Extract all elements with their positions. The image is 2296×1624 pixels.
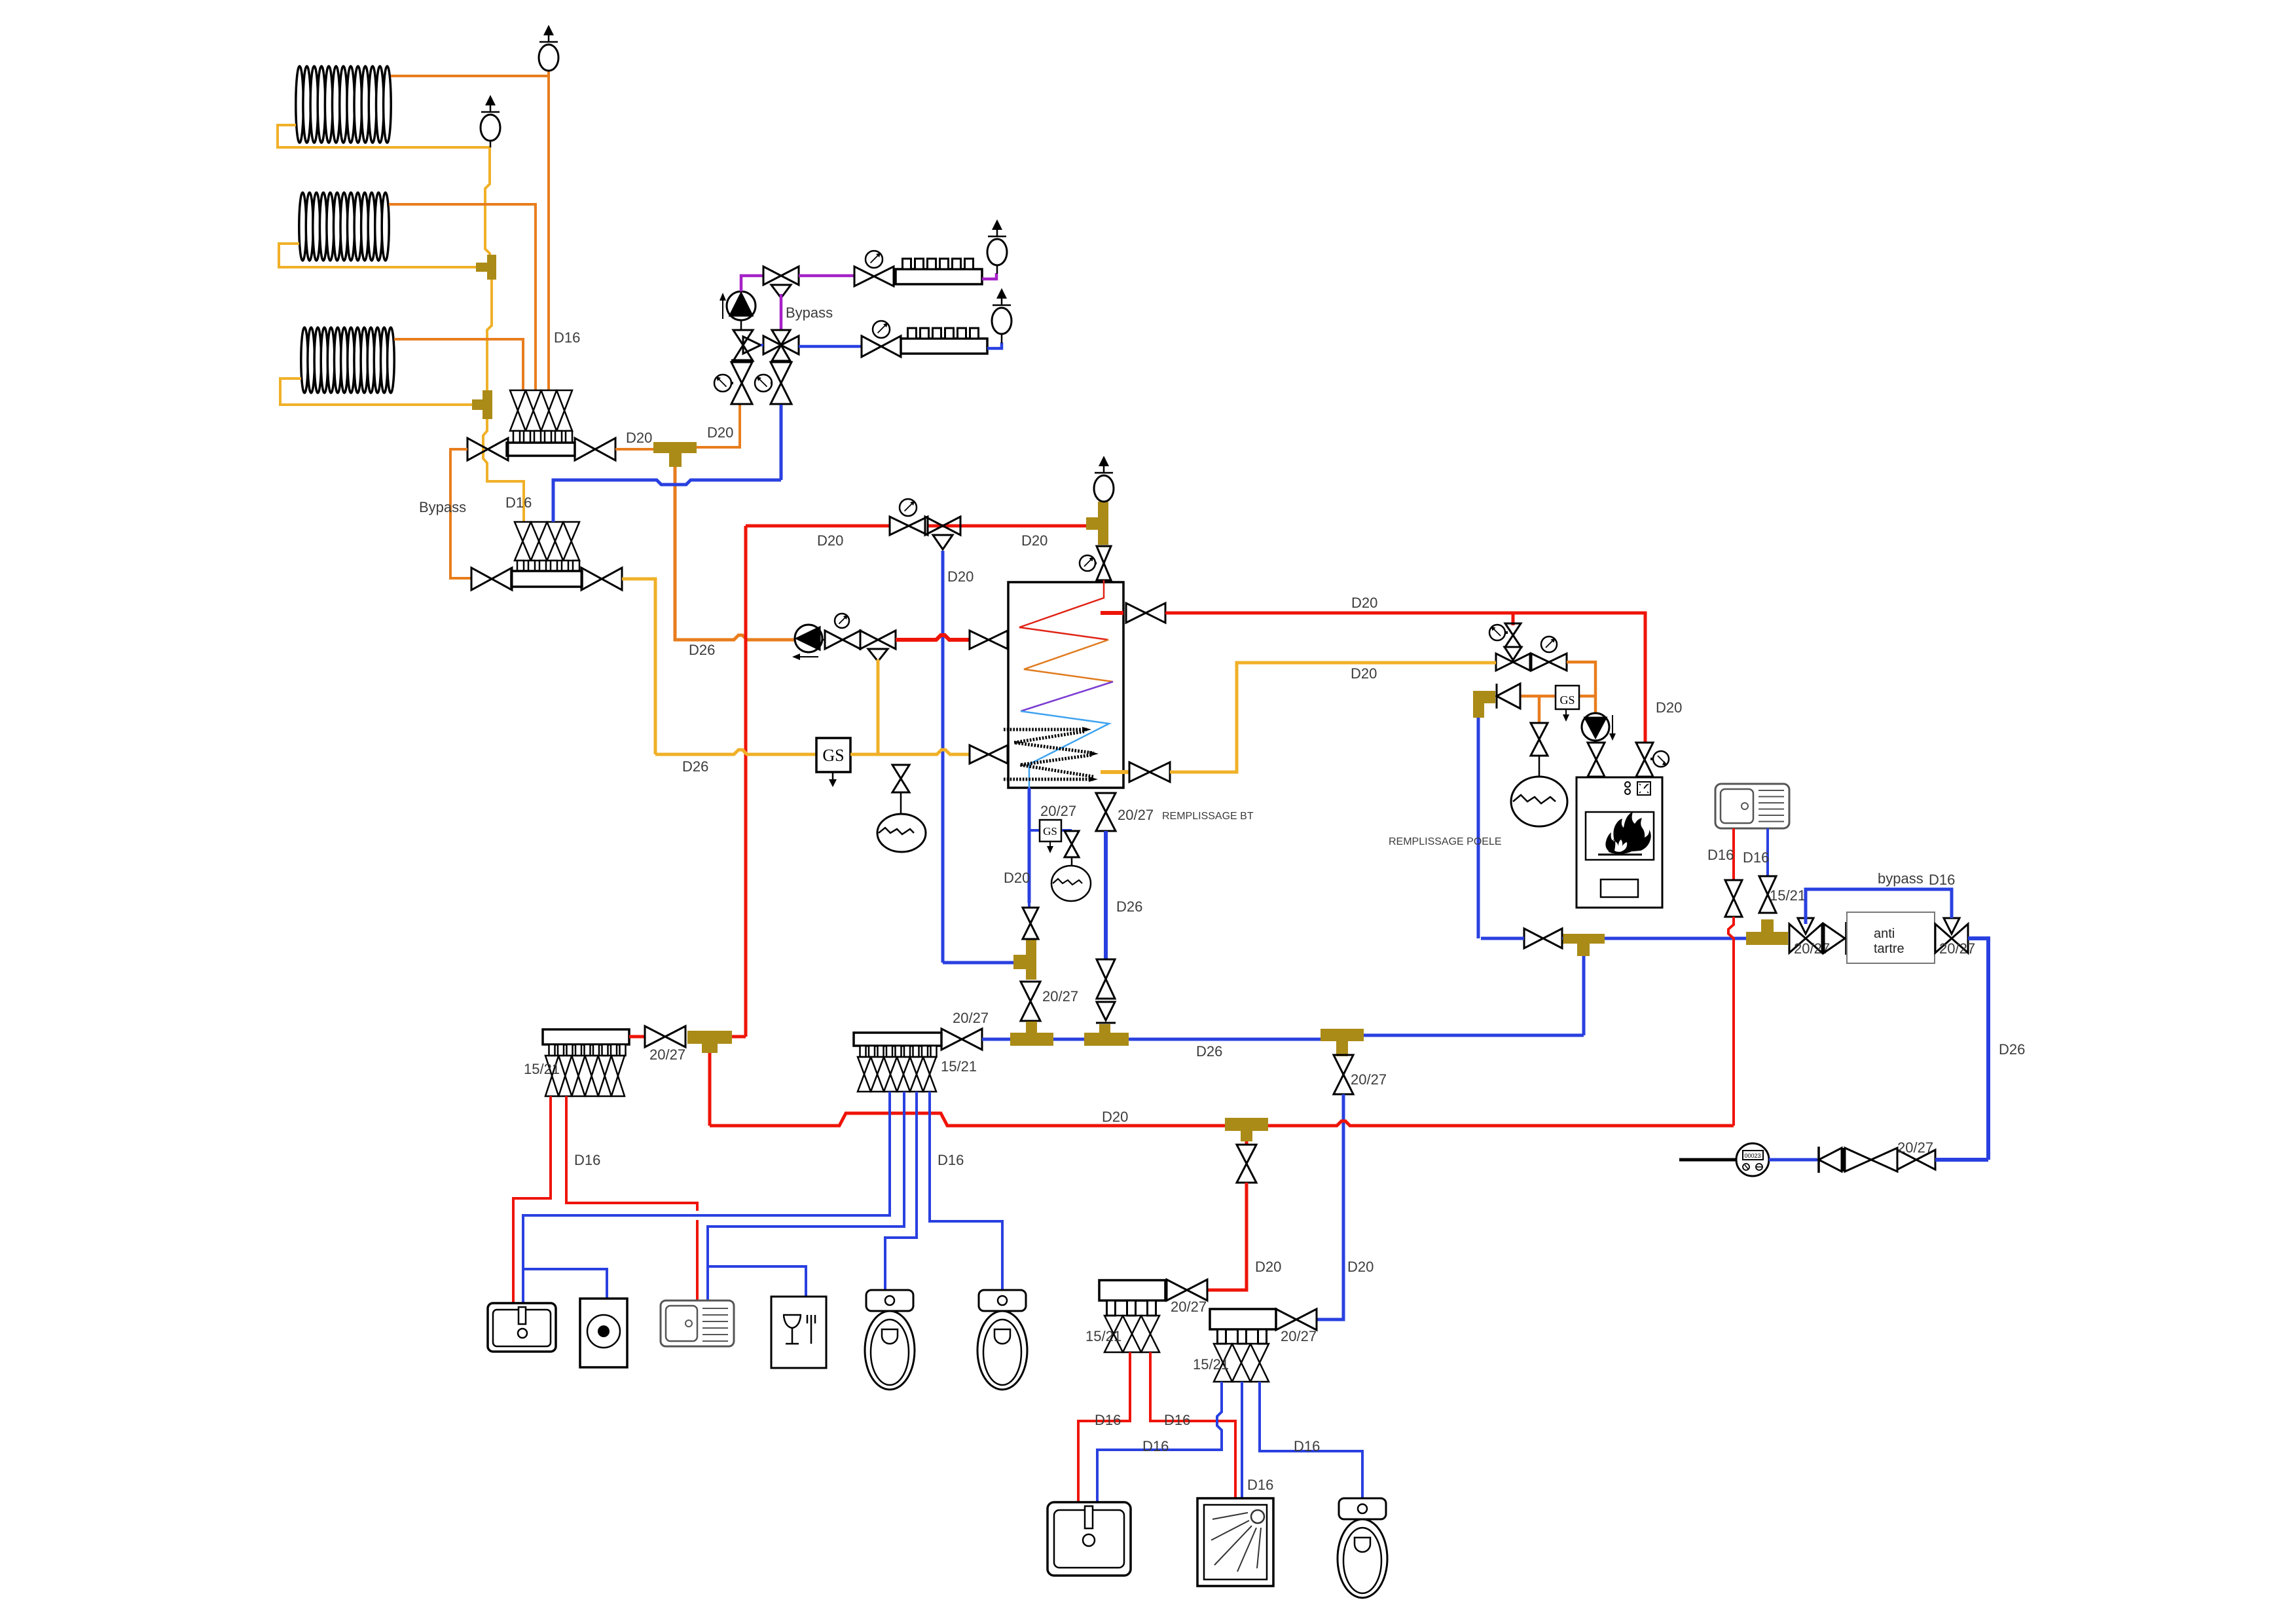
tank hatched coil top line xyxy=(1004,728,1087,731)
valve U2 left xyxy=(471,568,492,590)
GS box 2 xyxy=(1029,829,1072,832)
unit U1 bar xyxy=(507,443,575,456)
svg-text:D20: D20 xyxy=(1004,870,1030,886)
svg-text:20/27: 20/27 xyxy=(1351,1071,1387,1088)
wire blue bypass anti-tartre xyxy=(1806,889,1952,924)
pump P3 xyxy=(1582,713,1609,741)
wire red D20 stove main xyxy=(1165,613,1645,743)
toilet WC3 xyxy=(1339,1498,1386,1519)
tank hatched coil bottom line xyxy=(1004,778,1093,781)
svg-text:D26: D26 xyxy=(1196,1043,1222,1060)
svg-text:tartre: tartre xyxy=(1874,942,1904,956)
4-way valve V2 xyxy=(772,330,790,345)
wire yellow U2 right down xyxy=(622,579,655,754)
valve 20/27 stove fill xyxy=(1524,929,1543,948)
valve 20/27 after meter xyxy=(1897,1150,1916,1170)
wire yellow return radiator R2 xyxy=(279,244,477,267)
wire blue D20 to gold tee xyxy=(943,961,1013,965)
brass tee TA xyxy=(1010,1033,1053,1046)
wire pump stem xyxy=(740,320,742,330)
brass elbow stove fill xyxy=(1473,691,1495,703)
air vent on R1 riser xyxy=(543,25,554,35)
brass tee vertical TJ1 xyxy=(1026,938,1036,980)
floor manifold M1 bar xyxy=(896,269,982,284)
valve vertical on red stub xyxy=(1505,623,1521,635)
wire red MH1 to valve xyxy=(629,1035,645,1039)
valve M1 inlet with gauge xyxy=(854,267,874,286)
valve REMPLISSAGE BT xyxy=(1096,793,1116,812)
wire orange stove loop xyxy=(1567,662,1595,713)
expansion vessel E1 xyxy=(877,814,926,852)
wire blue TD right xyxy=(1605,937,1746,940)
wire purple pump to valve xyxy=(741,276,763,291)
GS3 drain arrow xyxy=(1565,709,1567,716)
svg-text:D16: D16 xyxy=(1247,1477,1273,1493)
wire yellow below T1 xyxy=(487,280,492,390)
MH1 stubs xyxy=(549,1044,555,1056)
kitchen sink 1 xyxy=(1715,784,1789,828)
wire blue to lavabo2 xyxy=(1097,1382,1222,1502)
svg-text:GS: GS xyxy=(1043,825,1057,838)
wire blue TB to TC D26 xyxy=(1129,1038,1321,1041)
wire red D20 vertical main xyxy=(744,526,748,1037)
valve M2 inlet with gauge xyxy=(862,336,881,357)
wire blue tank drain to TJ1 xyxy=(1028,903,1030,908)
wire red pump row to tank xyxy=(896,635,969,640)
wire black mains xyxy=(1679,1158,1737,1162)
brass tee sink1 xyxy=(1746,932,1788,945)
brass tee TB xyxy=(1084,1033,1129,1046)
valve below P3 xyxy=(1595,741,1597,743)
valve big after meter xyxy=(1845,1148,1871,1172)
valve V3 left of V2 xyxy=(733,330,753,345)
brass tee TH2 xyxy=(1225,1118,1268,1131)
wire red stub stove valve xyxy=(1512,613,1515,625)
DHW manifold MH2 bar xyxy=(854,1033,941,1046)
valve vessel E3 xyxy=(1531,723,1548,739)
lavabo 2 xyxy=(1048,1502,1131,1576)
svg-text:20/27: 20/27 xyxy=(1042,988,1078,1005)
svg-text:00023: 00023 xyxy=(1744,1153,1760,1159)
valve above TJ1 xyxy=(1023,908,1038,923)
svg-text:20/27: 20/27 xyxy=(953,1010,989,1026)
wire red to shower xyxy=(1150,1352,1235,1498)
wire blue drop3 WC1 xyxy=(885,1092,917,1290)
svg-text:D20: D20 xyxy=(1351,595,1377,611)
3-way valve red top xyxy=(925,517,943,535)
wire blue REMPLISSAGE POELE xyxy=(1477,718,1480,938)
wire yellow D26 main xyxy=(655,750,816,754)
wire yellow return radiator R1 xyxy=(278,125,490,147)
wire blue to shower xyxy=(1241,1382,1243,1498)
MH3 stubs xyxy=(1107,1301,1116,1316)
brass tee tank top xyxy=(1098,502,1108,545)
stove indicator dots xyxy=(1625,782,1630,787)
wire red TH2 down xyxy=(1245,1141,1248,1144)
radiator R3 coil xyxy=(301,327,308,393)
MH2 valve row 15/21 xyxy=(858,1057,871,1092)
MH2 stubs xyxy=(860,1046,866,1057)
wire yellow tank to stove xyxy=(1170,663,1496,772)
wire red TH1 down to main xyxy=(708,1053,712,1126)
wire orange supply radiator R1 xyxy=(391,71,549,76)
3-way valve anti-tartre right xyxy=(1935,924,1952,953)
3-way valve pump row xyxy=(860,631,878,649)
wire orange supply radiator R1 riser xyxy=(547,76,550,390)
wire orange U1 to T3 xyxy=(615,448,653,451)
valve sink1 red xyxy=(1725,880,1742,898)
wire blue AT out xyxy=(1968,938,1988,1160)
wire purple M1 to vent xyxy=(982,273,996,279)
svg-text:D16: D16 xyxy=(554,329,580,346)
svg-text:D16: D16 xyxy=(1164,1412,1190,1428)
svg-text:20/27: 20/27 xyxy=(1281,1328,1317,1344)
valve tank top with gauge xyxy=(1097,546,1111,563)
valve tank left top xyxy=(970,631,989,649)
toilet WC1 xyxy=(866,1290,913,1311)
svg-text:D20: D20 xyxy=(947,568,974,585)
expansion vessel E3 xyxy=(1511,777,1567,826)
valve tank right top xyxy=(1126,603,1146,623)
valve 20/27 below TJ1 xyxy=(1021,982,1040,1001)
pump P2 xyxy=(795,625,822,652)
DHW manifold MH3 bar xyxy=(1099,1280,1165,1301)
wire blue fill valve left xyxy=(1481,937,1563,940)
valve U1 right xyxy=(575,438,595,460)
wire orange GS3 xyxy=(1520,695,1595,698)
air vent manifold M2 xyxy=(996,288,1007,299)
wire blue drop2b sink xyxy=(706,1266,709,1301)
wire yellow below T2 through valve xyxy=(483,419,524,522)
GS box 3 xyxy=(1556,686,1579,709)
wire red to manifold MH3 xyxy=(1207,1183,1247,1290)
pump P1 flow arrow xyxy=(722,298,723,319)
balancing valve below V3 xyxy=(731,360,753,363)
wire blue tank drain xyxy=(1028,788,1031,903)
wire red top to tank tee xyxy=(746,525,1086,528)
valve with gauge stove 2 xyxy=(1531,654,1549,671)
washing machine xyxy=(580,1299,627,1367)
wire purple bypass xyxy=(780,294,783,330)
wire red to lavabo2 xyxy=(1078,1352,1130,1502)
tank coil orange segment xyxy=(1024,640,1113,682)
toilet WC2 xyxy=(979,1290,1026,1311)
wire orange vessel E3 xyxy=(1538,696,1541,723)
valve 20/27 MH4 xyxy=(1276,1309,1296,1330)
drain valve yellow line xyxy=(892,765,909,779)
check valve after meter xyxy=(1817,1147,1820,1173)
3-way valve V1 purple xyxy=(763,267,781,285)
wire blue sink1 xyxy=(1766,828,1769,876)
svg-text:20/27: 20/27 xyxy=(1040,803,1076,819)
wire blue drop1 xyxy=(523,1092,890,1303)
wire yellow 3way down xyxy=(877,659,880,754)
wire red valve to tank xyxy=(1008,638,1010,642)
wire orange T3 down xyxy=(675,467,795,640)
wire blue TA-TB xyxy=(1053,1038,1084,1041)
svg-text:bypass: bypass xyxy=(1878,870,1923,887)
wire red to lavabo1 xyxy=(513,1096,551,1303)
svg-text:D16: D16 xyxy=(574,1152,600,1168)
kitchen sink 2 xyxy=(661,1301,734,1346)
wire purple to manifold M1 xyxy=(799,274,854,278)
wire blue TD down xyxy=(1582,956,1586,1035)
svg-text:GS: GS xyxy=(1559,693,1575,707)
wire blue to WC3 xyxy=(1260,1382,1362,1498)
wire blue drop2 xyxy=(708,1092,904,1266)
svg-text:D20: D20 xyxy=(707,424,733,441)
wire blue D26 BT xyxy=(1104,831,1108,959)
tank coil red segment xyxy=(1019,580,1108,640)
wire blue below V2 xyxy=(780,405,783,480)
stove body xyxy=(1576,777,1662,908)
svg-text:20/27: 20/27 xyxy=(1939,940,1975,957)
svg-text:D16: D16 xyxy=(505,494,532,511)
svg-text:GS: GS xyxy=(822,746,844,765)
brass tee TD stove fill xyxy=(1563,934,1605,944)
brass tee T1 xyxy=(487,255,496,280)
svg-text:D16: D16 xyxy=(938,1152,964,1168)
svg-text:D26: D26 xyxy=(682,758,708,775)
air vent manifold M1 xyxy=(992,219,1002,230)
svg-text:15/21: 15/21 xyxy=(1770,887,1806,904)
svg-text:20/27: 20/27 xyxy=(649,1046,685,1063)
unit U2 bar xyxy=(511,571,582,587)
wire yellow return radiator R3 xyxy=(280,378,473,405)
drain valve GS2 xyxy=(1065,831,1079,844)
MH4 valve row 15/21 xyxy=(1214,1344,1232,1382)
svg-text:D20: D20 xyxy=(1255,1259,1281,1275)
svg-text:D16: D16 xyxy=(1095,1412,1121,1428)
wire orange bypass to U1 xyxy=(450,449,471,578)
stove fire window xyxy=(1586,812,1654,860)
tank coil purple segment xyxy=(1021,682,1113,711)
tank yellow takeoff xyxy=(1101,770,1129,774)
manifold M2 stubs xyxy=(908,328,917,339)
wire red sink1 xyxy=(1732,828,1735,880)
valve red bath2 xyxy=(1237,1145,1256,1164)
wire blue drop2c DW xyxy=(708,1266,806,1297)
wire blue MH2 valve to TA xyxy=(982,1038,1010,1041)
valve 15/21 sink1 xyxy=(1759,876,1776,895)
valve 20/27 MH2 xyxy=(941,1029,962,1050)
pump P2 flow arrow xyxy=(795,656,818,657)
tank hatched coil zigzag xyxy=(1014,731,1094,753)
wire red TH1 to riser xyxy=(732,1035,746,1039)
wire yellow GS to tank xyxy=(850,750,970,754)
brass tee T3 xyxy=(653,442,697,453)
balancing valve below V2 xyxy=(771,362,792,383)
svg-text:D26: D26 xyxy=(1999,1041,2025,1058)
GS box 1 xyxy=(816,738,850,772)
MH1 valve row 15/21 xyxy=(545,1056,558,1096)
svg-text:D20: D20 xyxy=(1656,699,1682,716)
svg-text:15/21: 15/21 xyxy=(941,1058,977,1075)
radiator R2 coil xyxy=(299,193,306,261)
wire yellow return riser xyxy=(485,147,490,255)
water meter xyxy=(1736,1143,1769,1176)
stove clock xyxy=(1637,782,1650,795)
wire blue M2 to vent xyxy=(987,342,1002,348)
buffer tank body xyxy=(1008,582,1123,788)
wire pump P2 stem xyxy=(822,639,826,641)
brass tee TC xyxy=(1321,1029,1364,1041)
check valve stove fill xyxy=(1496,684,1498,709)
wire blue D20 down to manifold M4 xyxy=(1317,1094,1343,1319)
lavabo 1 xyxy=(488,1303,556,1352)
wire blue meter xyxy=(1769,1158,1817,1162)
stacked valves on BT line xyxy=(1097,959,1115,979)
brass tee T2 xyxy=(483,390,492,419)
svg-text:15/21: 15/21 xyxy=(524,1061,560,1077)
svg-text:D16: D16 xyxy=(1142,1438,1169,1454)
pump P3 flow arrow xyxy=(1612,715,1613,735)
valve 20/27 MH3 xyxy=(1167,1280,1187,1301)
3way valve yellow stove xyxy=(1504,647,1522,660)
valve stove right xyxy=(1636,743,1653,760)
anti-tartre box xyxy=(1847,912,1935,963)
dishwasher xyxy=(771,1297,826,1368)
svg-text:D16: D16 xyxy=(1294,1438,1320,1454)
svg-text:15/21: 15/21 xyxy=(1085,1328,1121,1344)
wire red sink1 to main xyxy=(1728,917,1734,1126)
valve U1 left xyxy=(467,438,488,460)
manifold M1 stubs xyxy=(903,259,911,269)
valve with gauge red top xyxy=(890,517,909,535)
svg-text:REMPLISSAGE POELE: REMPLISSAGE POELE xyxy=(1389,836,1502,847)
svg-text:Bypass: Bypass xyxy=(786,304,833,321)
MH4 stubs xyxy=(1218,1329,1226,1344)
svg-text:anti: anti xyxy=(1874,927,1895,941)
heat exchanger unit U2 x-row xyxy=(515,522,531,561)
valve tank right bottom xyxy=(1129,762,1150,782)
valve 20/27 below TC xyxy=(1334,1055,1353,1075)
svg-text:Bypass: Bypass xyxy=(419,499,466,515)
3-way valve anti-tartre left xyxy=(1789,924,1806,953)
wire red into tank xyxy=(1103,580,1105,598)
valve with gauge pump row xyxy=(825,631,843,649)
brass tee TH1 xyxy=(687,1031,732,1044)
valve 20/27 MH1 xyxy=(645,1026,665,1047)
svg-text:REMPLISSAGE BT: REMPLISSAGE BT xyxy=(1162,811,1254,822)
svg-text:D20: D20 xyxy=(1347,1259,1374,1275)
check valve anti-tartre xyxy=(1824,924,1845,953)
svg-text:D16: D16 xyxy=(1929,872,1955,888)
svg-text:15/21: 15/21 xyxy=(1193,1356,1229,1373)
svg-text:20/27: 20/27 xyxy=(1897,1139,1933,1156)
DHW manifold MH4 bar xyxy=(1210,1309,1276,1329)
wire blue link V3-V2 xyxy=(761,344,763,346)
wire blue drop4 WC2 xyxy=(930,1092,1002,1290)
stove drawer xyxy=(1601,879,1638,897)
wire orange supply radiator R2 xyxy=(389,204,536,390)
floor manifold M2 bar xyxy=(901,339,987,354)
svg-text:D16: D16 xyxy=(1743,849,1769,866)
air vent tank xyxy=(1099,456,1109,466)
heat exchanger unit U1 x-row xyxy=(510,390,526,431)
svg-text:D20: D20 xyxy=(1351,665,1377,682)
wire blue D20 riser xyxy=(941,551,945,963)
svg-text:D20: D20 xyxy=(817,532,843,549)
stove flame xyxy=(1605,812,1650,853)
wire blue to U2 top xyxy=(553,480,781,522)
valve U2 right xyxy=(581,568,602,590)
shower tray xyxy=(1197,1498,1273,1586)
svg-text:D16: D16 xyxy=(1707,847,1734,863)
wire blue drop1b WM xyxy=(523,1269,607,1299)
wire red to kitchen sink2 xyxy=(566,1096,697,1301)
svg-text:20/27: 20/27 xyxy=(1171,1299,1207,1315)
valve tank left bottom xyxy=(970,745,989,764)
wire red DHW main horizontal xyxy=(710,1113,1734,1126)
wire blue meter to AT xyxy=(1935,1158,1988,1162)
wire orange supply radiator R3 xyxy=(394,339,523,390)
DHW manifold MH1 bar xyxy=(543,1029,629,1044)
svg-text:D20: D20 xyxy=(626,430,652,446)
wire blue TC right to TD xyxy=(1364,1034,1584,1037)
radiator R1 coil xyxy=(296,66,304,143)
svg-text:D26: D26 xyxy=(1116,898,1142,915)
MH3 valve row 15/21 xyxy=(1104,1316,1123,1352)
svg-text:20/27: 20/27 xyxy=(1118,807,1154,823)
svg-text:D26: D26 xyxy=(689,642,715,658)
unit U1 stubs xyxy=(513,431,520,443)
GS2 drain arrow xyxy=(1049,841,1051,847)
air vent on R1 return xyxy=(485,95,496,105)
unit U2 stubs xyxy=(517,561,524,571)
svg-text:D20: D20 xyxy=(1102,1109,1128,1125)
tank red takeoff xyxy=(1101,611,1123,615)
pump P1 xyxy=(727,291,756,320)
svg-text:D20: D20 xyxy=(1021,532,1048,549)
expansion vessel E2 xyxy=(1051,866,1091,901)
wire orange T3 right to valve xyxy=(697,405,740,447)
tank coil light blue segment xyxy=(1021,711,1109,788)
GS1 drain arrow xyxy=(832,772,834,781)
wire blue V2 to manifold M2 xyxy=(799,345,862,348)
